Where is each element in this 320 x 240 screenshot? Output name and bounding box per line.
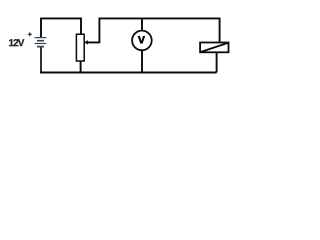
wire component bottom lead (216, 52, 218, 72)
wire voltmeter top lead (141, 18, 143, 30)
wire battery bottom lead (40, 47, 42, 72)
wire potentiometer bottom lead (80, 61, 82, 73)
wire battery top lead and left top rail to potentiometer (41, 18, 81, 37)
label 12V (9, 39, 24, 46)
wire wiper to top rail and top rail to right side (87, 18, 220, 42)
component X1 diagonal stroke (201, 43, 228, 52)
potentiometer wiper arrow (84, 40, 88, 44)
component X1 body (box with diagonal) (200, 43, 228, 53)
battery plus sign (28, 32, 32, 36)
wire bottom rail (40, 72, 217, 74)
voltmeter letter V (138, 36, 146, 44)
potentiometer R1 body (76, 34, 84, 61)
battery B1 plates (35, 38, 47, 47)
voltmeter M1 circle (132, 31, 152, 51)
wire voltmeter bottom lead (141, 50, 143, 72)
